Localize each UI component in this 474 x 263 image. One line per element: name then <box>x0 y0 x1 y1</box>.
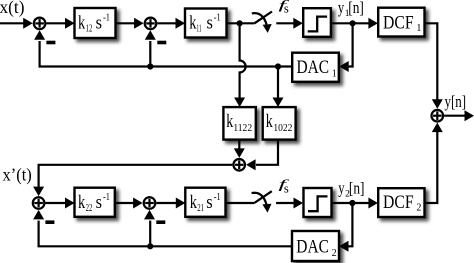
minus sign at S2 <box>157 41 166 45</box>
wire feedback stub up to S2 <box>149 41 151 67</box>
wire S4 to k22 <box>46 202 66 204</box>
sampling switch 2 <box>252 191 272 204</box>
wire S1 to k12 <box>47 22 66 24</box>
wire DCF1 to output summer <box>425 23 438 100</box>
integrator block k22 <box>75 188 115 217</box>
junction dot DAC1 line to k1022 <box>275 63 281 69</box>
wire DCF2 to output summer <box>425 132 438 203</box>
wire switch 2 to quantizer 2 <box>276 202 293 204</box>
junction dot y1 <box>350 20 356 26</box>
wire x(t) input <box>0 22 24 24</box>
integrator block k21 <box>185 188 225 217</box>
wire k1022 down and left to S3 <box>256 140 278 165</box>
wire S2 to k11 <box>157 22 176 24</box>
wire k21 to switch 2 <box>226 202 255 204</box>
minus sign at S1 <box>46 41 55 45</box>
svg-text:s: s <box>284 1 289 16</box>
wire S3 output to S4 <box>39 165 233 188</box>
block DCF2 <box>378 188 424 217</box>
minus sign at S4 <box>45 220 54 224</box>
wire S5 to k21 <box>156 202 176 204</box>
wire k1122 down to S3 <box>238 140 240 149</box>
wire DAC2 feedback to S4 and S5 <box>39 221 292 247</box>
svg-text:y1[n]: y1[n] <box>338 0 364 19</box>
wire Q2 to DCF2 <box>332 202 370 204</box>
summer S1 <box>34 18 46 30</box>
wire y2 to DAC2 <box>348 203 352 246</box>
junction dot after k11 <box>237 20 243 26</box>
quantizer Q1 <box>303 8 331 37</box>
coupling block k1122 <box>223 107 255 140</box>
junction dot y2 <box>349 200 355 206</box>
wire DAC1 feedback to S1 and S2 <box>40 41 293 67</box>
summer S6 output <box>432 110 444 122</box>
quantizer Q2 <box>304 188 332 217</box>
svg-text:y2[n]: y2[n] <box>338 178 364 199</box>
wire DAC1 branch down to k1022 <box>277 67 279 98</box>
wire y[n] output <box>444 115 466 117</box>
wire y1 to DAC1 <box>348 23 352 66</box>
wire feedback stub up to S5 <box>149 221 151 247</box>
svg-text:s: s <box>284 180 289 195</box>
wire Q1 to DCF1 <box>331 22 369 24</box>
wire switch to quantizer 1 <box>276 22 293 24</box>
integrator block k11 <box>185 9 227 38</box>
summer S2 <box>145 18 157 30</box>
svg-text:y[n]: y[n] <box>445 92 467 111</box>
summer S4 <box>33 197 45 209</box>
summer S3 <box>233 159 245 171</box>
block DAC1 <box>292 53 339 82</box>
svg-text:x’(t): x’(t) <box>3 164 32 184</box>
sampling switch 1 <box>252 12 272 25</box>
block DCF1 <box>378 8 424 37</box>
wire k22 to S5 <box>115 202 134 204</box>
wire integrator output down to k1122 with hop over feedback <box>240 23 246 97</box>
coupling block k1022 <box>263 107 296 140</box>
summer S5 <box>144 197 156 209</box>
block DAC2 <box>292 231 339 261</box>
minus sign at S5 <box>156 220 165 224</box>
integrator block k12 <box>75 8 116 38</box>
wire k12 to S2 <box>116 22 135 24</box>
junction dot DAC1 line under S2 <box>147 63 153 69</box>
svg-text:x(t): x(t) <box>0 0 25 17</box>
wire k11 to switch <box>227 22 255 24</box>
junction dot DAC2 line under S5 <box>147 243 153 249</box>
